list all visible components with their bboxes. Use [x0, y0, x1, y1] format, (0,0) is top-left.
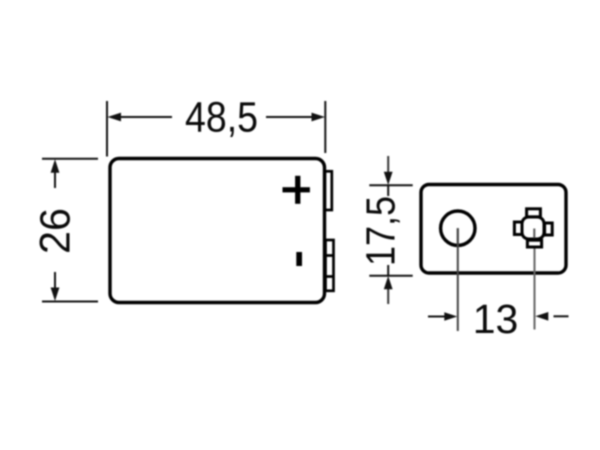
battery body side view	[110, 159, 325, 303]
svg-text:17,5: 17,5	[358, 196, 404, 266]
svg-text:26: 26	[33, 208, 80, 254]
dimension 13 arrow left	[428, 312, 457, 321]
svg-text:48,5: 48,5	[185, 95, 258, 142]
dimension 17,5 extension line top	[369, 184, 412, 186]
leader line from positive terminal center	[534, 229, 536, 330]
dimension 13 arrow right	[535, 312, 568, 321]
leader stub inside circle	[457, 228, 459, 244]
dimension 48,5 arrow right	[266, 113, 325, 122]
dimension 17,5 extension line bottom	[369, 275, 412, 277]
dimension 48,5 extension line left	[106, 101, 108, 157]
negative terminal tab (side view bottom, 3 segments)	[326, 240, 334, 291]
plus symbol	[283, 176, 310, 204]
svg-text:13: 13	[473, 296, 519, 342]
dimension 26 arrow up	[51, 159, 60, 188]
dimension 26 extension line top	[42, 158, 98, 160]
dimension 48,5 arrow left	[108, 113, 173, 122]
dimension 17,5 arrow down (above)	[384, 156, 393, 185]
negative snap terminal (circle)	[441, 211, 475, 245]
top view plate	[421, 185, 566, 274]
leader line from circle center	[457, 228, 459, 331]
dimension 17,5 line stubs	[387, 185, 389, 196]
minus symbol	[296, 252, 302, 266]
leader stub inside positive terminal	[533, 229, 535, 239]
positive terminal tab (side view top)	[325, 171, 332, 210]
dimension 26 extension line bottom	[42, 301, 98, 303]
dimension 17,5 arrow up (below)	[384, 276, 393, 304]
dimension 48,5 extension line right	[324, 101, 326, 153]
positive snap terminal (crown)	[514, 209, 552, 247]
dimension 26 arrow down	[51, 272, 60, 301]
